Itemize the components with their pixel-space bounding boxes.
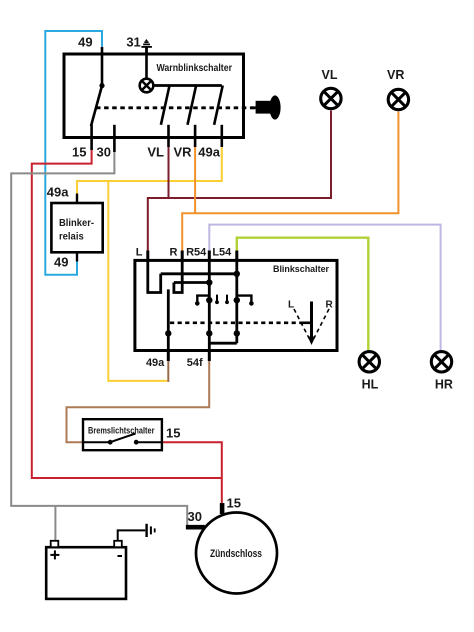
svg-text:R54: R54 bbox=[186, 247, 207, 259]
terminal 49 stub bbox=[101, 47, 104, 86]
svg-text:15: 15 bbox=[72, 145, 86, 160]
lamp VL bbox=[321, 88, 341, 108]
internal bus line to switch contacts bbox=[153, 84, 222, 87]
terminal VL stub bbox=[167, 125, 170, 147]
wire 49a (yellow) branch to Blinkschalter bbox=[108, 181, 167, 381]
R internal path bbox=[174, 260, 182, 292]
svg-text:54f: 54f bbox=[187, 357, 203, 369]
49a internal vertical bbox=[167, 289, 170, 350]
node R54 lower junction bbox=[206, 330, 212, 336]
wire 54f (brown): Blinkschalter 54f - Bremslichtschalter bbox=[67, 360, 210, 442]
node R54 contact junction bbox=[206, 297, 212, 303]
svg-text:R: R bbox=[326, 300, 334, 311]
terminal 54f stub bbox=[208, 351, 211, 362]
terminal VR stub bbox=[194, 125, 197, 147]
svg-text:VR: VR bbox=[387, 68, 404, 82]
label + bbox=[50, 554, 59, 556]
wire 30 (gray) battery branch bbox=[54, 506, 56, 542]
Blinkerrelais 49a stub bbox=[76, 194, 78, 204]
L internal path bbox=[148, 260, 161, 292]
bus1 (L / L54) bbox=[161, 272, 237, 275]
svg-text:15: 15 bbox=[166, 426, 180, 441]
battery G1 bbox=[46, 547, 126, 599]
lever arrow bbox=[310, 302, 313, 339]
svg-text:49: 49 bbox=[78, 35, 92, 50]
svg-text:Bremslichtschalter: Bremslichtschalter bbox=[88, 426, 155, 436]
jog L54 to 54f bbox=[209, 342, 237, 345]
Warnblinkschalter box U1 bbox=[64, 54, 244, 138]
Blinkerrelais 49 stub bbox=[76, 252, 78, 261]
switch unit VL: blade bbox=[161, 86, 170, 125]
terminal L54 stub bbox=[235, 251, 238, 261]
svg-text:relais: relais bbox=[59, 232, 84, 243]
switch line right bbox=[136, 441, 162, 443]
terminal 30 stub (Zündschloss) bbox=[186, 525, 205, 530]
wire R54 (lavender): Blinkschalter R54 - HR lamp bbox=[209, 225, 440, 351]
switch blade 49-15 bbox=[91, 86, 102, 126]
svg-text:49a: 49a bbox=[198, 145, 220, 160]
Zündschloss circle bbox=[196, 513, 277, 594]
svg-text:49a: 49a bbox=[47, 185, 69, 200]
svg-text:L54: L54 bbox=[212, 247, 232, 259]
R54 internal vertical bbox=[208, 260, 211, 350]
terminal 30 stub bbox=[113, 125, 116, 152]
svg-text:L: L bbox=[288, 300, 294, 311]
dash connector to knob bbox=[251, 106, 257, 109]
node left contact bbox=[108, 440, 113, 445]
dashed actuator line (Blinkschalter) bbox=[170, 321, 303, 324]
svg-text:49a: 49a bbox=[146, 357, 165, 369]
svg-text:VL: VL bbox=[322, 68, 338, 82]
wire 49a (yellow): Warnblinkschalter 49a - Blinkerrelais 49a - Blinkschalter 49a bbox=[77, 146, 222, 194]
svg-text:49: 49 bbox=[54, 255, 68, 270]
node bus1-L54 junction bbox=[234, 271, 240, 277]
floating pin contact 1 bbox=[216, 295, 218, 302]
wire 30 (gray): Warnblinkschalter 30 - battery + - Zündschloss 30 bbox=[11, 151, 187, 526]
svg-text:30: 30 bbox=[188, 509, 202, 524]
lamp HL bbox=[359, 352, 379, 372]
terminal R54 stub bbox=[208, 251, 211, 261]
node 49 pivot dot bbox=[99, 83, 104, 88]
wire VL (maroon): Warnblinkschalter VL - VL lamp - Blinkschalter L bbox=[168, 146, 170, 198]
ground 31 symbol bbox=[145, 47, 148, 54]
wire 15 (red) vertical right segment bbox=[163, 442, 222, 503]
lamp HR bbox=[431, 352, 451, 372]
svg-text:31: 31 bbox=[126, 35, 140, 50]
indicator lamp inside Warnblinkschalter bbox=[140, 79, 154, 93]
switch unit VR: blade bbox=[188, 86, 197, 125]
svg-text:Blinkschalter: Blinkschalter bbox=[273, 264, 329, 274]
switch blade bbox=[110, 434, 135, 443]
battery - terminal post bbox=[114, 541, 122, 547]
lamp VR bbox=[388, 89, 408, 109]
svg-text:Warnblinkschalter: Warnblinkschalter bbox=[157, 63, 233, 74]
ground symbol (battery) bbox=[145, 524, 147, 537]
floating pin contact 2 bbox=[226, 295, 228, 302]
left hook contact bbox=[197, 296, 209, 302]
node bus2-R54 junction bbox=[206, 279, 212, 285]
wire VR (orange): Warnblinkschalter VR - VR lamp - Blinkschalter R bbox=[194, 146, 196, 213]
dashed lever position R bbox=[313, 309, 329, 340]
terminal R stub bbox=[181, 251, 184, 261]
svg-text:R: R bbox=[170, 247, 178, 259]
svg-text:VL: VL bbox=[147, 145, 164, 160]
wire 49a (brown riser at Blinkschalter terminal) bbox=[167, 360, 169, 382]
svg-text:HL: HL bbox=[362, 378, 379, 392]
ground wire from battery minus bbox=[118, 530, 146, 541]
terminal L stub bbox=[146, 251, 149, 261]
terminal 49a stub bbox=[221, 125, 224, 147]
label - bbox=[118, 555, 123, 557]
terminal 49a stub (Blinkschalter bottom) bbox=[167, 351, 170, 362]
bus2 (R / R54) bbox=[174, 281, 209, 284]
dashed actuator line bbox=[96, 106, 256, 109]
wire 15 (red): Warnblinkschalter 15 - Bremslichtschalter 15 - Zündschloss 15 bbox=[32, 149, 222, 478]
Blinkschalter box S1 bbox=[135, 260, 337, 350]
switch line left bbox=[83, 441, 110, 443]
Blinkerrelais box K1 bbox=[51, 203, 102, 252]
battery + terminal post bbox=[51, 541, 59, 547]
wire 49 (cyan): Warnblinkschalter 49 to Blinkerrelais 49 bbox=[45, 31, 102, 275]
terminal 15 stub bbox=[90, 125, 93, 150]
actuator knob bbox=[256, 101, 271, 114]
wire L54 (green): Blinkschalter L54 - HL lamp bbox=[237, 238, 368, 351]
Bremslichtschalter box S2 bbox=[83, 419, 162, 450]
node L54 lower junction bbox=[234, 330, 240, 336]
node right contact bbox=[134, 440, 139, 445]
svg-text:VR: VR bbox=[173, 145, 192, 160]
terminal 15 stub (Zündschloss) bbox=[220, 503, 225, 514]
right hook contact bbox=[237, 296, 252, 302]
svg-text:HR: HR bbox=[435, 378, 453, 392]
dashed lever position L bbox=[294, 309, 310, 340]
wire from ground to indicator lamp bbox=[145, 54, 148, 79]
svg-text:Blinker-: Blinker- bbox=[59, 218, 94, 229]
switch unit 49a: blade bbox=[214, 86, 223, 125]
svg-text:15: 15 bbox=[227, 496, 241, 511]
svg-text:30: 30 bbox=[97, 145, 111, 160]
L54 internal vertical bbox=[235, 260, 238, 343]
node 49a junction bbox=[165, 330, 171, 336]
node L54 contact junction bbox=[234, 297, 240, 303]
svg-text:Zündschloss: Zündschloss bbox=[210, 548, 262, 560]
svg-text:L: L bbox=[136, 247, 143, 259]
